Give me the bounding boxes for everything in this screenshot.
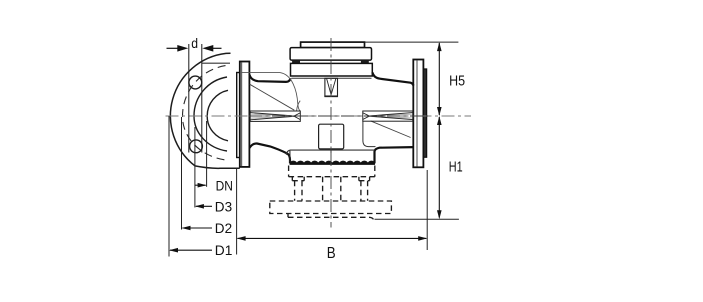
gland bolt left [292, 60, 300, 63]
d dimension lines [188, 44, 190, 153]
flange outer arc D1 [170, 53, 239, 168]
D3 extension line [194, 127, 196, 208]
bonnet-body joint line [292, 77, 372, 79]
svg-text:H5: H5 [449, 73, 465, 90]
svg-text:D1: D1 [215, 243, 233, 258]
bonnet cap [301, 42, 365, 48]
svg-text:H1: H1 [449, 159, 463, 176]
raised face arc D3 [194, 77, 227, 151]
bonnet flange [291, 63, 373, 76]
B dimension line [237, 236, 428, 241]
left flange plate [240, 62, 250, 167]
right flange plate [413, 60, 423, 168]
bonnet flange edge (front view) [202, 62, 230, 64]
internal funnel top left [240, 73, 300, 111]
gland flange [290, 48, 371, 61]
stem [324, 78, 338, 96]
body floor line [286, 150, 374, 155]
D2 extension line [181, 117, 183, 230]
svg-text:DN: DN [216, 179, 233, 194]
horizontal centerline [166, 115, 472, 117]
venturi cone right [363, 111, 413, 121]
hidden bolt left [292, 177, 304, 201]
hub underside left [249, 143, 290, 163]
D1 dimension arrow [169, 248, 212, 253]
svg-text:D2: D2 [215, 221, 232, 236]
D3 dimension arrow [195, 204, 212, 209]
left flange gasket line [241, 63, 243, 167]
d arrows [167, 45, 222, 52]
bottom flange serrated edge [290, 161, 375, 165]
DN extension line [206, 121, 208, 187]
top extension line [365, 41, 459, 43]
venturi cone left [250, 111, 300, 121]
right flange gasket line [416, 60, 418, 167]
hidden actuator body [270, 201, 392, 214]
bore arc DN [207, 90, 228, 141]
vertical centerline [330, 38, 332, 228]
internal taper right [371, 121, 411, 138]
right flange raised-face strip [423, 69, 426, 157]
bolt hole lower [190, 140, 203, 153]
hidden center column [323, 177, 341, 201]
left flange raised-face strip [237, 73, 240, 158]
H1 bottom extension line [375, 218, 459, 220]
D2 dimension arrow [182, 226, 213, 231]
body shoulder right [372, 72, 413, 85]
B extension right [426, 170, 428, 250]
bolt circle arc D2 (dashed) [182, 66, 225, 160]
hidden actuator base [288, 214, 373, 220]
D1 extension line [168, 116, 170, 257]
hidden bolt right [359, 177, 370, 201]
svg-text:d: d [191, 35, 198, 51]
body shoulder left [249, 75, 290, 82]
internal taper left [250, 84, 294, 110]
H dimension line [437, 42, 442, 219]
DN dimension arrow [195, 183, 207, 188]
internal bell left [297, 101, 301, 111]
svg-text:D3: D3 [215, 199, 232, 214]
hidden actuator flange (dashed) [270, 166, 392, 220]
plate center joint [330, 150, 332, 162]
bolt hole upper [189, 76, 202, 89]
seat tab right [363, 121, 376, 146]
bottom flange plate [289, 151, 291, 164]
B extension left [236, 169, 238, 255]
hub underside right [375, 147, 414, 163]
gland bolt right [361, 60, 369, 63]
svg-text:B: B [327, 245, 336, 262]
plug [319, 124, 344, 149]
